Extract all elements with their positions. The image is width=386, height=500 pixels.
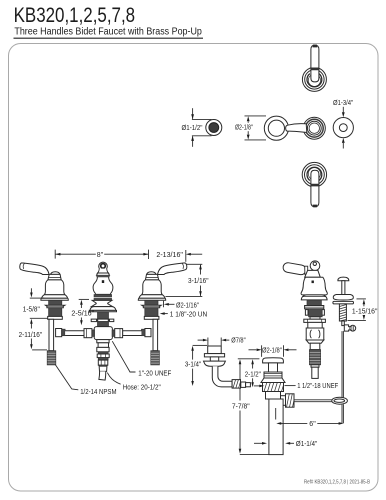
label hose: [107, 373, 120, 385]
dim 1-5/8: [30, 288, 32, 292]
top lever inner arc: [307, 74, 322, 87]
side handle neck: [305, 270, 321, 277]
svg-text:Ø1-1/4": Ø1-1/4": [296, 441, 318, 448]
cartridge stem: [312, 367, 318, 378]
svg-text:Hose: 20-1/2": Hose: 20-1/2": [123, 384, 161, 391]
hole circle 1-1/2: [206, 120, 222, 136]
bottom lever junction band: [311, 184, 319, 187]
shank dark upper: [49, 300, 62, 305]
drain collar flare: [261, 378, 285, 383]
sprayer collar: [98, 269, 109, 273]
supply tube: [49, 319, 54, 350]
svg-text:3-1/16": 3-1/16": [188, 278, 209, 285]
svg-text:2-11/16": 2-11/16": [19, 332, 43, 339]
popup thin rod: [342, 321, 345, 326]
svg-text:Ø2-1/8": Ø2-1/8": [235, 125, 253, 132]
dim 1-1/2 ext lines: [192, 118, 212, 120]
svg-text:2-13/16": 2-13/16": [156, 252, 183, 259]
ear washer: [91, 319, 114, 322]
bottom lever cap: [313, 205, 318, 208]
cartridge taper: [306, 340, 324, 343]
drain upper body: [264, 372, 282, 378]
elbow cylinder: [208, 346, 222, 354]
svg-text:2-5/16": 2-5/16": [71, 311, 94, 318]
drain stem: [269, 363, 278, 372]
locknut: [45, 305, 65, 308]
cartridge notch: [311, 365, 319, 367]
side handle dark square: [312, 281, 314, 284]
bonnet dome: [44, 280, 65, 295]
side escutcheon flare: [301, 295, 327, 300]
hose adapter body: [98, 343, 108, 348]
popup threaded rod: [339, 304, 346, 321]
sprayer knurled band: [94, 295, 112, 298]
cartridge valve body: [306, 328, 324, 340]
pipe coupling nut at valve: [56, 329, 62, 337]
svg-text:KB320,1,2,5,7,8: KB320,1,2,5,7,8: [14, 4, 136, 27]
sprayer base plate: [90, 307, 116, 311]
pipe left segment: [65, 331, 84, 336]
drain side port: [281, 396, 286, 406]
svg-text:Ø2-1/8": Ø2-1/8": [262, 347, 282, 354]
clamp thumbscrew: [350, 325, 356, 331]
dim 2-13/16: [185, 250, 187, 262]
sprayer cone: [97, 273, 110, 275]
drain body: [266, 392, 281, 400]
label 1 1/8-20 UN: [160, 312, 165, 315]
label 1-20 UNEF: [112, 341, 135, 372]
popup knob: [338, 277, 349, 281]
hose ferrule: [99, 365, 107, 371]
dim 2-1/2: [238, 358, 260, 360]
elbow tube: [212, 366, 232, 387]
elbow white nut: [241, 382, 246, 387]
hose end: [99, 371, 106, 380]
dim 3-1/16: [187, 263, 203, 265]
side handle lever: [282, 262, 306, 275]
sprayer shank dark: [98, 312, 109, 327]
sprayer ball: [99, 262, 108, 271]
ball rod: [294, 399, 332, 401]
label 1 1/2-18 UNEF: [285, 385, 296, 387]
svg-text:1-15/16": 1-15/16": [352, 309, 378, 316]
left valve assembly: [20, 263, 69, 365]
dim 7/8: [207, 338, 209, 346]
popup knob stem: [342, 281, 345, 295]
shank dark lower: [49, 308, 62, 317]
top lever junction band: [311, 68, 319, 71]
bottom lever stem: [311, 170, 319, 207]
cartridge threads: [309, 350, 320, 365]
elbow neck: [210, 357, 218, 361]
hose adapter flange: [97, 340, 109, 343]
svg-text:6": 6": [309, 421, 316, 428]
rod below clevis: [341, 404, 343, 423]
cartridge shank dark with tabs: [305, 310, 308, 316]
drain tube: [269, 399, 283, 455]
label 1/2-14 NPSM: [55, 365, 78, 390]
dim 2-5/16: [79, 298, 89, 300]
lift rod: [341, 331, 343, 397]
dim 2-1/8 ext lines: [245, 115, 267, 117]
svg-text:Ø2-1/16": Ø2-1/16": [176, 302, 199, 309]
neck: [48, 274, 61, 280]
elbow flange2: [204, 361, 226, 366]
bottom lever ring: [302, 162, 326, 186]
middle lever bonnet outer rings: [303, 117, 325, 139]
popup escutcheon disc: [333, 295, 353, 301]
tee body: [94, 327, 112, 340]
dim 2-11/16: [30, 319, 33, 324]
side handle bonnet: [301, 277, 327, 295]
svg-text:Ref# KB320,1,2,5,7,8 | 2021-85: Ref# KB320,1,2,5,7,8 | 2021-85-B: [304, 480, 370, 486]
cartridge knurl band: [307, 300, 321, 305]
deck washer: [48, 316, 63, 319]
sprayer vase body: [93, 277, 113, 295]
svg-text:2-1/2": 2-1/2": [245, 371, 261, 378]
sprayer dark square: [102, 280, 104, 283]
side handle hub: [310, 261, 320, 271]
middle lever arm: [286, 124, 307, 133]
svg-text:1"-20 UNEF: 1"-20 UNEF: [138, 370, 171, 377]
middle lever bonnet inner rings: [307, 121, 321, 135]
elbow stub: [246, 383, 251, 387]
top lever ring: [302, 67, 326, 91]
drain stopper cap: [263, 358, 284, 363]
hose hex nut: [97, 347, 109, 351]
hose dark band 2: [98, 358, 108, 361]
dim 8in line: [55, 253, 95, 255]
dim 1-1/2 arrows: [192, 108, 194, 119]
tee left nut: [84, 329, 92, 338]
escutcheon base: [41, 298, 68, 300]
drain thread band: [263, 383, 284, 392]
lever tip mark: [23, 263, 24, 269]
svg-text:8": 8": [97, 252, 104, 259]
cartridge shank gap: [310, 317, 320, 319]
cartridge flange: [305, 306, 324, 309]
dim 6in: [275, 408, 277, 420]
dim 1-1/4: [254, 442, 262, 444]
hose hex 2: [97, 354, 109, 358]
hose coupling: [98, 360, 108, 365]
pipe right segment: [123, 331, 142, 336]
dim 1-3/4 arrows: [342, 107, 344, 113]
title underline: [14, 37, 204, 39]
label dia 2-1/16: [164, 303, 169, 306]
middle lever knob: [264, 116, 288, 140]
dim 2-1/8 line: [247, 122, 249, 123]
svg-text:Ø1-1/2": Ø1-1/2": [182, 125, 203, 132]
dim 8in ticks: [54, 250, 56, 259]
dim 3-1/4: [193, 344, 207, 346]
bonnet skirt: [42, 295, 68, 299]
cartridge upper body: [308, 322, 322, 328]
tee right nut: [115, 329, 123, 338]
cartridge locknut ears: [304, 319, 326, 322]
svg-text:1/2-14 NPSM: 1/2-14 NPSM: [80, 389, 116, 396]
top lever stem: [311, 45, 319, 82]
sprayer bowtie skirt: [91, 300, 112, 306]
clevis: [332, 397, 348, 404]
side lever connector: [305, 266, 308, 274]
supply nipple threaded: [47, 351, 56, 365]
drain dim 2-1/8: [261, 345, 263, 357]
svg-text:Ø1-3/4": Ø1-3/4": [333, 100, 354, 107]
svg-text:7-7/8": 7-7/8": [232, 404, 250, 411]
pivot cap: [51, 272, 61, 275]
svg-text:Ø7/8": Ø7/8": [231, 338, 246, 345]
elbow flange1: [204, 354, 224, 357]
dim 7-7/8: [239, 359, 242, 364]
lever handle: [20, 263, 49, 275]
svg-text:1 1/8"-20 UN: 1 1/8"-20 UN: [170, 312, 207, 319]
elbow hatched nut: [232, 380, 240, 389]
hose dark band 1: [98, 352, 108, 354]
svg-text:3-1/4": 3-1/4": [185, 362, 202, 369]
svg-text:1-5/8": 1-5/8": [23, 307, 40, 314]
dim 1-15/16: [357, 298, 366, 300]
rod clamp: [344, 325, 350, 331]
bottom lever inner arc: [307, 167, 322, 180]
svg-text:Three Handles Bidet Faucet wit: Three Handles Bidet Faucet with Brass Po…: [14, 27, 202, 38]
cartridge straight: [310, 343, 320, 349]
top lever cap: [313, 45, 318, 48]
svg-text:1 1/2"-18 UNEF: 1 1/2"-18 UNEF: [297, 383, 338, 390]
right valve assembly (mirror): [138, 263, 187, 365]
escutcheon circle 1-3/4: [333, 118, 353, 138]
